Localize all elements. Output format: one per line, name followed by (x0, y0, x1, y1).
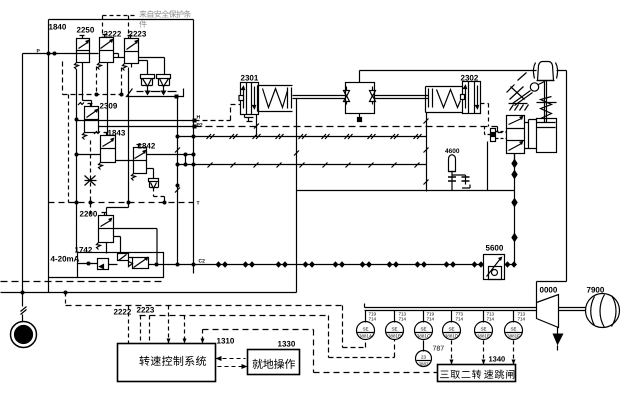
svg-text:1842: 1842 (138, 142, 156, 151)
svg-text:3881A: 3881A (359, 334, 372, 339)
svg-text:1843: 1843 (108, 129, 126, 138)
svg-text:0000: 0000 (540, 286, 558, 295)
svg-text:1840: 1840 (49, 23, 67, 32)
svg-text:SE: SE (480, 327, 486, 332)
svg-text:23: 23 (421, 355, 427, 360)
svg-text:P2: P2 (197, 123, 203, 129)
svg-text:2309: 2309 (100, 102, 118, 111)
svg-text:3883: 3883 (418, 362, 429, 367)
svg-text:SE: SE (362, 327, 368, 332)
svg-text:1340: 1340 (489, 355, 506, 364)
svg-text:2223: 2223 (137, 306, 155, 315)
svg-text:4-20mA: 4-20mA (51, 255, 80, 264)
svg-text:1310: 1310 (217, 337, 235, 346)
svg-text:2200: 2200 (80, 210, 98, 219)
svg-text:3881B: 3881B (388, 334, 401, 339)
svg-text:SE: SE (510, 327, 516, 332)
svg-text:2223: 2223 (129, 30, 147, 39)
svg-text:2301: 2301 (241, 74, 259, 83)
svg-text:1330: 1330 (278, 340, 296, 349)
svg-text:5600: 5600 (486, 244, 504, 253)
svg-text:2302: 2302 (461, 74, 479, 83)
svg-text:714: 714 (399, 317, 407, 322)
svg-text:2250: 2250 (77, 26, 95, 35)
svg-text:714: 714 (369, 317, 377, 322)
svg-text:T: T (197, 201, 200, 207)
svg-text:SE: SE (448, 327, 454, 332)
svg-text:3881C: 3881C (417, 334, 431, 339)
svg-text:SE: SE (420, 327, 426, 332)
svg-text:H: H (197, 115, 201, 121)
svg-text:714: 714 (456, 317, 464, 322)
svg-text:2222: 2222 (114, 308, 132, 317)
svg-text:2222: 2222 (104, 30, 122, 39)
svg-text:4600: 4600 (445, 148, 460, 155)
svg-text:787: 787 (433, 346, 445, 353)
svg-text:714: 714 (427, 317, 435, 322)
svg-text:3881F: 3881F (507, 334, 520, 339)
svg-text:C2: C2 (199, 259, 206, 265)
svg-text:3881E: 3881E (477, 334, 490, 339)
svg-text:1742: 1742 (75, 246, 93, 255)
svg-text:714: 714 (518, 317, 526, 322)
svg-text:3881D: 3881D (445, 334, 459, 339)
svg-text:7900: 7900 (587, 286, 605, 295)
svg-text:SE: SE (391, 327, 397, 332)
svg-text:714: 714 (487, 317, 495, 322)
